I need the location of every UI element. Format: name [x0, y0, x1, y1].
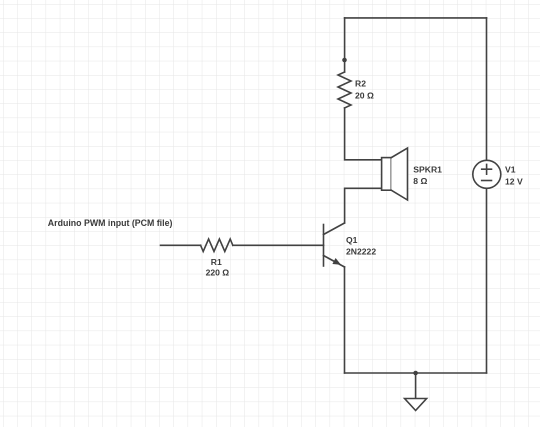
svg-text:R2: R2 — [355, 79, 366, 89]
transistor Q1 base bar — [323, 225, 325, 267]
transistor Q1 collector diagonal — [324, 223, 345, 235]
voltage source V1 circle — [473, 160, 501, 188]
wire emitter to bottom rail — [344, 267, 346, 373]
speaker SPKR1 body — [382, 158, 392, 191]
transistor Q1 emitter diagonal — [324, 256, 345, 268]
resistor R1 — [201, 239, 233, 252]
junction dot on bottom rail (ground) — [413, 371, 418, 376]
junction dot on left rail — [342, 58, 347, 63]
wire R2 to speaker top terminal — [345, 108, 382, 160]
V1 minus sign — [482, 180, 492, 182]
wire speaker bottom terminal — [345, 188, 382, 223]
V1 plus sign — [482, 164, 492, 174]
wire right rail lower — [486, 188, 488, 373]
wire right rail upper — [486, 18, 488, 160]
svg-text:2N2222: 2N2222 — [346, 247, 376, 257]
svg-text:SPKR1: SPKR1 — [413, 164, 442, 174]
wire input to R1 — [161, 244, 201, 246]
svg-text:V1: V1 — [505, 165, 516, 175]
wire left rail top (to R2) — [344, 18, 346, 72]
svg-text:20 Ω: 20 Ω — [355, 91, 374, 101]
resistor R2 — [338, 72, 351, 108]
transistor Q1 emitter arrowhead — [332, 258, 341, 265]
svg-text:Arduino PWM input (PCM file): Arduino PWM input (PCM file) — [48, 218, 173, 228]
speaker SPKR1 cone — [391, 148, 407, 200]
ground stub wire — [415, 373, 417, 399]
wire top rail — [345, 17, 487, 19]
svg-text:Q1: Q1 — [346, 235, 358, 245]
ground symbol triangle — [405, 399, 427, 411]
wire base from R1 to Q1 — [233, 244, 324, 246]
svg-text:12 V: 12 V — [505, 177, 523, 187]
svg-text:8 Ω: 8 Ω — [413, 176, 427, 186]
svg-text:R1: R1 — [211, 257, 222, 267]
svg-text:220 Ω: 220 Ω — [206, 268, 230, 278]
wire bottom rail — [345, 372, 487, 374]
